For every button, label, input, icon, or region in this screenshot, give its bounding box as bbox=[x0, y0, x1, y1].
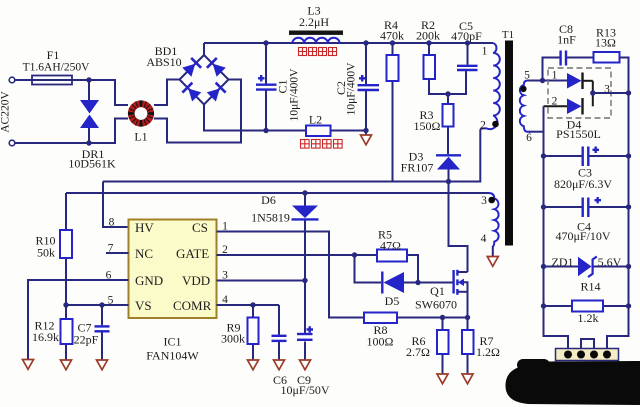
resistor R14 bbox=[544, 301, 629, 312]
wire aux lower line bbox=[66, 192, 489, 194]
svg-text:ABS10: ABS10 bbox=[146, 55, 181, 69]
junction dot bbox=[363, 128, 368, 133]
capacitor C3 bbox=[544, 147, 629, 167]
resistor R9 bbox=[248, 305, 259, 364]
junction dot bbox=[541, 303, 546, 308]
wire L1 to bridge ac1 bbox=[154, 80, 180, 106]
svg-text:FR107: FR107 bbox=[401, 161, 434, 175]
junction dot bbox=[590, 90, 595, 95]
connector output header bbox=[556, 349, 619, 361]
diode D6 bbox=[292, 193, 319, 334]
svg-text:6: 6 bbox=[526, 132, 532, 144]
junction dot bbox=[540, 78, 545, 83]
svg-text:FAN104W: FAN104W bbox=[146, 349, 199, 363]
junction dot bbox=[426, 40, 431, 45]
junction dot bbox=[263, 128, 268, 133]
svg-text:10D561K: 10D561K bbox=[68, 157, 116, 171]
svg-text:50k: 50k bbox=[37, 246, 55, 260]
resistor R6 bbox=[437, 318, 449, 379]
resistor R2 bbox=[424, 43, 467, 94]
svg-text:100Ω: 100Ω bbox=[367, 335, 394, 349]
svg-text:2.7Ω: 2.7Ω bbox=[406, 345, 430, 359]
capacitor C4 bbox=[544, 197, 629, 217]
svg-text:1N5819: 1N5819 bbox=[251, 211, 290, 225]
resistor R3 bbox=[443, 94, 454, 154]
transformer T1 core bbox=[505, 41, 513, 246]
svg-text:COMR: COMR bbox=[173, 298, 212, 313]
svg-text:D5: D5 bbox=[385, 294, 400, 308]
wire D4 output bbox=[593, 92, 629, 94]
wire pin4 lead bbox=[492, 246, 494, 261]
phasing dot secondary bbox=[520, 86, 526, 92]
D4 diode upper bbox=[567, 73, 593, 90]
resistor R10 bbox=[60, 193, 72, 305]
ferrite bead L2 bbox=[306, 126, 331, 137]
ground C9 bbox=[300, 360, 311, 370]
diode D3 bbox=[436, 155, 461, 181]
svg-text:L2: L2 bbox=[309, 113, 322, 127]
svg-text:1.2Ω: 1.2Ω bbox=[476, 345, 500, 359]
junction dot bbox=[363, 40, 368, 45]
svg-text:13Ω: 13Ω bbox=[595, 36, 616, 50]
wire pin5 to D4 bbox=[528, 80, 568, 82]
svg-text:L1: L1 bbox=[134, 130, 147, 144]
ground R7 bbox=[462, 374, 473, 384]
wire gate pin2 row bbox=[217, 254, 355, 256]
svg-text:SW6070: SW6070 bbox=[415, 298, 457, 312]
svg-text:10μF/400V: 10μF/400V bbox=[346, 62, 358, 116]
wire L1 to bridge ac2 bbox=[154, 80, 241, 143]
svg-text:2: 2 bbox=[480, 120, 486, 132]
junction dot bbox=[626, 303, 631, 308]
svg-text:NC: NC bbox=[135, 246, 153, 261]
ground C6 bbox=[274, 360, 285, 370]
junction dot bbox=[302, 190, 307, 195]
wire bridge dc minus rail bbox=[204, 105, 366, 131]
svg-text:VS: VS bbox=[135, 298, 152, 313]
junction dot bbox=[465, 315, 470, 320]
bridge diode top-right bbox=[207, 58, 226, 77]
junction dot bbox=[63, 302, 68, 307]
dc plug black blob bbox=[505, 359, 640, 405]
wire pin6 lead bbox=[529, 131, 544, 133]
capacitor C9 bbox=[297, 326, 313, 364]
svg-text:HV: HV bbox=[135, 220, 154, 235]
junction dot bbox=[302, 278, 307, 283]
D4 diode lower bbox=[544, 98, 583, 115]
wire gate to mosfet bbox=[418, 282, 453, 284]
wire bridge dc plus to rail bbox=[203, 43, 205, 55]
inductor L1 common-mode choke bbox=[129, 102, 153, 126]
IC U1 FAN104W body bbox=[129, 220, 217, 319]
resistor R12 bbox=[61, 305, 73, 364]
wire pin2 to drain node bbox=[449, 128, 484, 181]
resistor R8 bbox=[364, 313, 468, 324]
svg-text:VDD: VDD bbox=[182, 273, 210, 288]
bridge diode top-left bbox=[182, 58, 201, 77]
junction dot bbox=[626, 153, 631, 158]
junction dot bbox=[415, 280, 420, 285]
junction dot bbox=[440, 315, 445, 320]
svg-text:200k: 200k bbox=[416, 29, 440, 43]
svg-text:470μF/10V: 470μF/10V bbox=[555, 229, 610, 243]
junction dot bbox=[465, 40, 470, 45]
ground R9 bbox=[248, 360, 259, 370]
svg-text:1: 1 bbox=[482, 46, 488, 58]
phasing dot aux bbox=[488, 197, 495, 204]
svg-text:300k: 300k bbox=[221, 332, 245, 346]
phasing dot primary bbox=[492, 121, 499, 128]
capacitor C7 bbox=[95, 305, 110, 364]
svg-text:ZD1: ZD1 bbox=[552, 255, 574, 269]
svg-text:Q1: Q1 bbox=[430, 284, 445, 298]
svg-text:3: 3 bbox=[481, 195, 487, 207]
rectifier D4 dashed box bbox=[548, 68, 611, 118]
ground C7 bbox=[97, 360, 108, 370]
zener ZD1 bbox=[544, 257, 629, 278]
svg-text:1.2k: 1.2k bbox=[578, 311, 599, 325]
junction dot bbox=[390, 40, 395, 45]
wire vdd pin3 row bbox=[217, 280, 306, 282]
wire pin7 nc stub bbox=[106, 252, 129, 254]
junction dot bbox=[541, 264, 546, 269]
svg-text:CS: CS bbox=[192, 220, 208, 235]
transformer T1 aux winding pins 3-4 bbox=[489, 193, 499, 247]
svg-text:AC220V: AC220V bbox=[0, 91, 12, 133]
wire drain node upper line bbox=[103, 181, 449, 183]
terminal line input bbox=[9, 77, 15, 83]
wire secondary right rail bbox=[607, 93, 629, 351]
ground R6 bbox=[437, 374, 448, 384]
svg-text:D6: D6 bbox=[261, 193, 276, 207]
junction dot bbox=[86, 77, 91, 82]
diode D5 bbox=[355, 255, 419, 294]
svg-text:2.2μH: 2.2μH bbox=[299, 15, 329, 29]
wire drain drop to mosfet bbox=[449, 182, 468, 273]
junction dot bbox=[541, 204, 546, 209]
D4 common cathode join bbox=[592, 81, 594, 107]
wire cs pin1 to R8 row bbox=[217, 232, 365, 318]
svg-text:10μF/50V: 10μF/50V bbox=[280, 383, 329, 397]
junction dot bbox=[626, 204, 631, 209]
junction dot bbox=[99, 302, 104, 307]
wire phase to L1 bbox=[15, 80, 128, 105]
terminal neutral input bbox=[9, 140, 15, 146]
junction dot bbox=[626, 90, 631, 95]
capacitor C5 bbox=[457, 43, 478, 70]
label red chip-bead glyphs bbox=[301, 140, 343, 149]
capacitor C1 bbox=[256, 43, 277, 131]
ground R12 bbox=[61, 360, 72, 370]
svg-text:1nF: 1nF bbox=[557, 33, 576, 47]
junction dot bbox=[352, 252, 357, 257]
capacitor C8 bbox=[561, 51, 566, 66]
svg-text:22pF: 22pF bbox=[74, 333, 99, 347]
varistor DR1 bbox=[80, 80, 99, 143]
label red color-ring-inductor glyphs bbox=[299, 48, 337, 56]
bridge diode bottom-left bbox=[182, 83, 201, 102]
resistor R7 bbox=[462, 318, 474, 379]
svg-text:T1.6AH/250V: T1.6AH/250V bbox=[23, 62, 90, 74]
wire neutral to L1 bbox=[15, 119, 128, 144]
ground primary hot bbox=[361, 131, 372, 145]
transistor Q1 mosfet bbox=[454, 270, 468, 318]
wire top dc rail bbox=[204, 42, 493, 44]
resistor R13 bbox=[594, 52, 629, 93]
junction dot bbox=[626, 264, 631, 269]
wire secondary left rail bbox=[544, 106, 569, 351]
svg-text:8: 8 bbox=[109, 217, 115, 229]
svg-text:PS1550L: PS1550L bbox=[556, 127, 601, 141]
svg-text:R14: R14 bbox=[580, 280, 600, 294]
svg-text:47Ω: 47Ω bbox=[380, 239, 401, 253]
junction dot bbox=[541, 153, 546, 158]
svg-text:IC1: IC1 bbox=[164, 335, 182, 349]
svg-text:5.6V: 5.6V bbox=[598, 255, 622, 269]
junction dot bbox=[250, 302, 255, 307]
wire pin5 vs row bbox=[66, 304, 129, 306]
wire comr pin4 row bbox=[217, 304, 280, 306]
capacitor C6 bbox=[272, 305, 287, 364]
svg-text:GATE: GATE bbox=[176, 246, 209, 261]
junction dot bbox=[446, 179, 451, 184]
capacitor C2 bbox=[358, 43, 380, 131]
resistor R4 bbox=[387, 43, 399, 182]
transformer T1 primary winding pins 1-2 bbox=[483, 43, 500, 129]
wire pin6 gnd bbox=[28, 280, 129, 364]
junction dot bbox=[263, 40, 268, 45]
svg-text:10μF/400V: 10μF/400V bbox=[289, 68, 301, 122]
svg-text:150Ω: 150Ω bbox=[414, 119, 441, 133]
bridge diode bottom-right bbox=[206, 83, 225, 102]
transformer T1 secondary winding pins 5-6 bbox=[520, 81, 530, 132]
svg-text:4: 4 bbox=[481, 233, 487, 245]
junction dot bbox=[445, 91, 450, 96]
svg-text:T1: T1 bbox=[502, 29, 514, 41]
svg-text:C1: C1 bbox=[276, 79, 290, 93]
fuse F1 bbox=[32, 76, 72, 85]
bridge BD1 diamond bbox=[180, 55, 229, 105]
resistor R5 bbox=[355, 250, 419, 283]
ground aux pin4 bbox=[487, 257, 498, 267]
svg-text:F1: F1 bbox=[47, 48, 60, 62]
svg-text:16.9k: 16.9k bbox=[32, 330, 59, 344]
junction dot bbox=[86, 140, 91, 145]
svg-text:GND: GND bbox=[135, 273, 163, 288]
wire output mid jumper bbox=[581, 339, 594, 351]
svg-text:820μF/6.3V: 820μF/6.3V bbox=[554, 177, 612, 191]
inductor L3 bbox=[289, 31, 343, 44]
ground gnd pin bbox=[23, 360, 34, 370]
wire hv drop to pin8 bbox=[103, 182, 129, 228]
wire snubber branch bbox=[543, 58, 594, 81]
svg-text:1: 1 bbox=[552, 70, 558, 82]
